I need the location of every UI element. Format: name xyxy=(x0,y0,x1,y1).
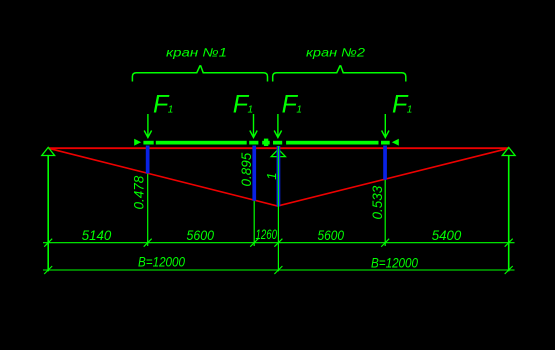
force label F1 wheel4 xyxy=(392,90,412,118)
svg-text:5140: 5140 xyxy=(82,228,112,243)
beam bar 1 xyxy=(156,141,247,145)
ordinate value 0.533 xyxy=(370,185,385,219)
svg-text:5600: 5600 xyxy=(187,228,215,243)
beam dash 2 xyxy=(249,141,258,145)
dimension row1 tick x=48 xyxy=(44,239,52,247)
red influence baseline xyxy=(49,147,509,149)
dimension value 5600 span1 xyxy=(187,228,215,243)
force label F1 wheel2 xyxy=(233,90,253,118)
beam center cross mark xyxy=(262,139,270,146)
extension line x=148 wheel1 xyxy=(147,146,149,247)
beam dash 1 xyxy=(143,141,153,145)
svg-text:5600: 5600 xyxy=(318,228,345,243)
force label F1 wheel3 xyxy=(282,90,302,118)
ordinate value 0.895 xyxy=(239,152,254,186)
dimension row1 tick x=509 xyxy=(505,239,513,247)
svg-text:кран №1: кран №1 xyxy=(166,46,227,60)
dimension row1 tick x=148 xyxy=(144,239,152,247)
beam dash 3 xyxy=(273,141,282,145)
extension line x=48 left support xyxy=(47,156,49,272)
brace crane 2 xyxy=(273,66,406,82)
label crane No2 xyxy=(306,46,365,60)
svg-text:B=12000: B=12000 xyxy=(138,255,185,270)
dimension row1 tick x=385 xyxy=(381,239,389,247)
svg-text:1260: 1260 xyxy=(256,227,278,242)
extension line x=254 wheel2 xyxy=(253,146,255,247)
dimension value 5140 xyxy=(82,228,112,243)
dimension value 5600 span2 xyxy=(318,228,345,243)
blue ordinate middle support 1 xyxy=(277,146,281,207)
dimension value 1260 xyxy=(256,227,278,242)
dimension line row 2 xyxy=(43,269,515,271)
svg-text:5400: 5400 xyxy=(432,228,462,243)
blue ordinate wheel2 0.895 xyxy=(252,146,256,201)
middle extension line under support xyxy=(277,148,279,271)
ordinate value 1 xyxy=(264,173,279,180)
crane runway beam left end stop xyxy=(134,139,141,146)
left support xyxy=(42,147,55,155)
dimension value 5400 xyxy=(432,228,462,243)
beam bar 2 xyxy=(286,141,378,145)
dimension row1 tick x=278 xyxy=(274,239,282,247)
crane runway beam right end stop xyxy=(392,139,399,146)
force arrow wheel2 xyxy=(250,114,257,138)
dimension row2 tick x=48 xyxy=(44,266,52,274)
dimension line row 1 xyxy=(43,242,515,244)
force arrow wheel3 xyxy=(274,114,281,138)
beam dash 4 xyxy=(381,141,390,145)
dimension value B=12000 right xyxy=(371,256,418,271)
brace crane 1 xyxy=(132,66,267,82)
extension line x=385 wheel4 xyxy=(384,146,386,247)
svg-text:кран №2: кран №2 xyxy=(306,46,365,60)
dimension row2 tick x=509 xyxy=(505,266,513,274)
middle support xyxy=(271,149,285,156)
svg-text:0.895: 0.895 xyxy=(239,152,254,186)
force arrow wheel4 xyxy=(382,114,389,138)
right support xyxy=(502,147,515,155)
blue ordinate wheel1 0.478 xyxy=(146,146,150,174)
red influence line V xyxy=(49,148,509,206)
ordinate value 0.478 xyxy=(132,175,147,209)
label crane No1 xyxy=(166,46,227,60)
dimension value B=12000 left xyxy=(138,255,185,270)
svg-text:B=12000: B=12000 xyxy=(371,256,418,271)
force label F1 wheel1 xyxy=(153,90,173,118)
green core of middle ordinate xyxy=(277,146,279,207)
svg-text:1: 1 xyxy=(264,173,279,180)
dimension row1 tick x=254 xyxy=(250,239,258,247)
svg-text:0.533: 0.533 xyxy=(370,185,385,219)
svg-text:0.478: 0.478 xyxy=(132,175,147,209)
blue ordinate wheel4 0.533 xyxy=(383,146,387,180)
dimension row2 tick x=278 xyxy=(274,266,282,274)
force arrow wheel1 xyxy=(144,114,151,138)
extension line x=509 right support xyxy=(508,156,510,272)
